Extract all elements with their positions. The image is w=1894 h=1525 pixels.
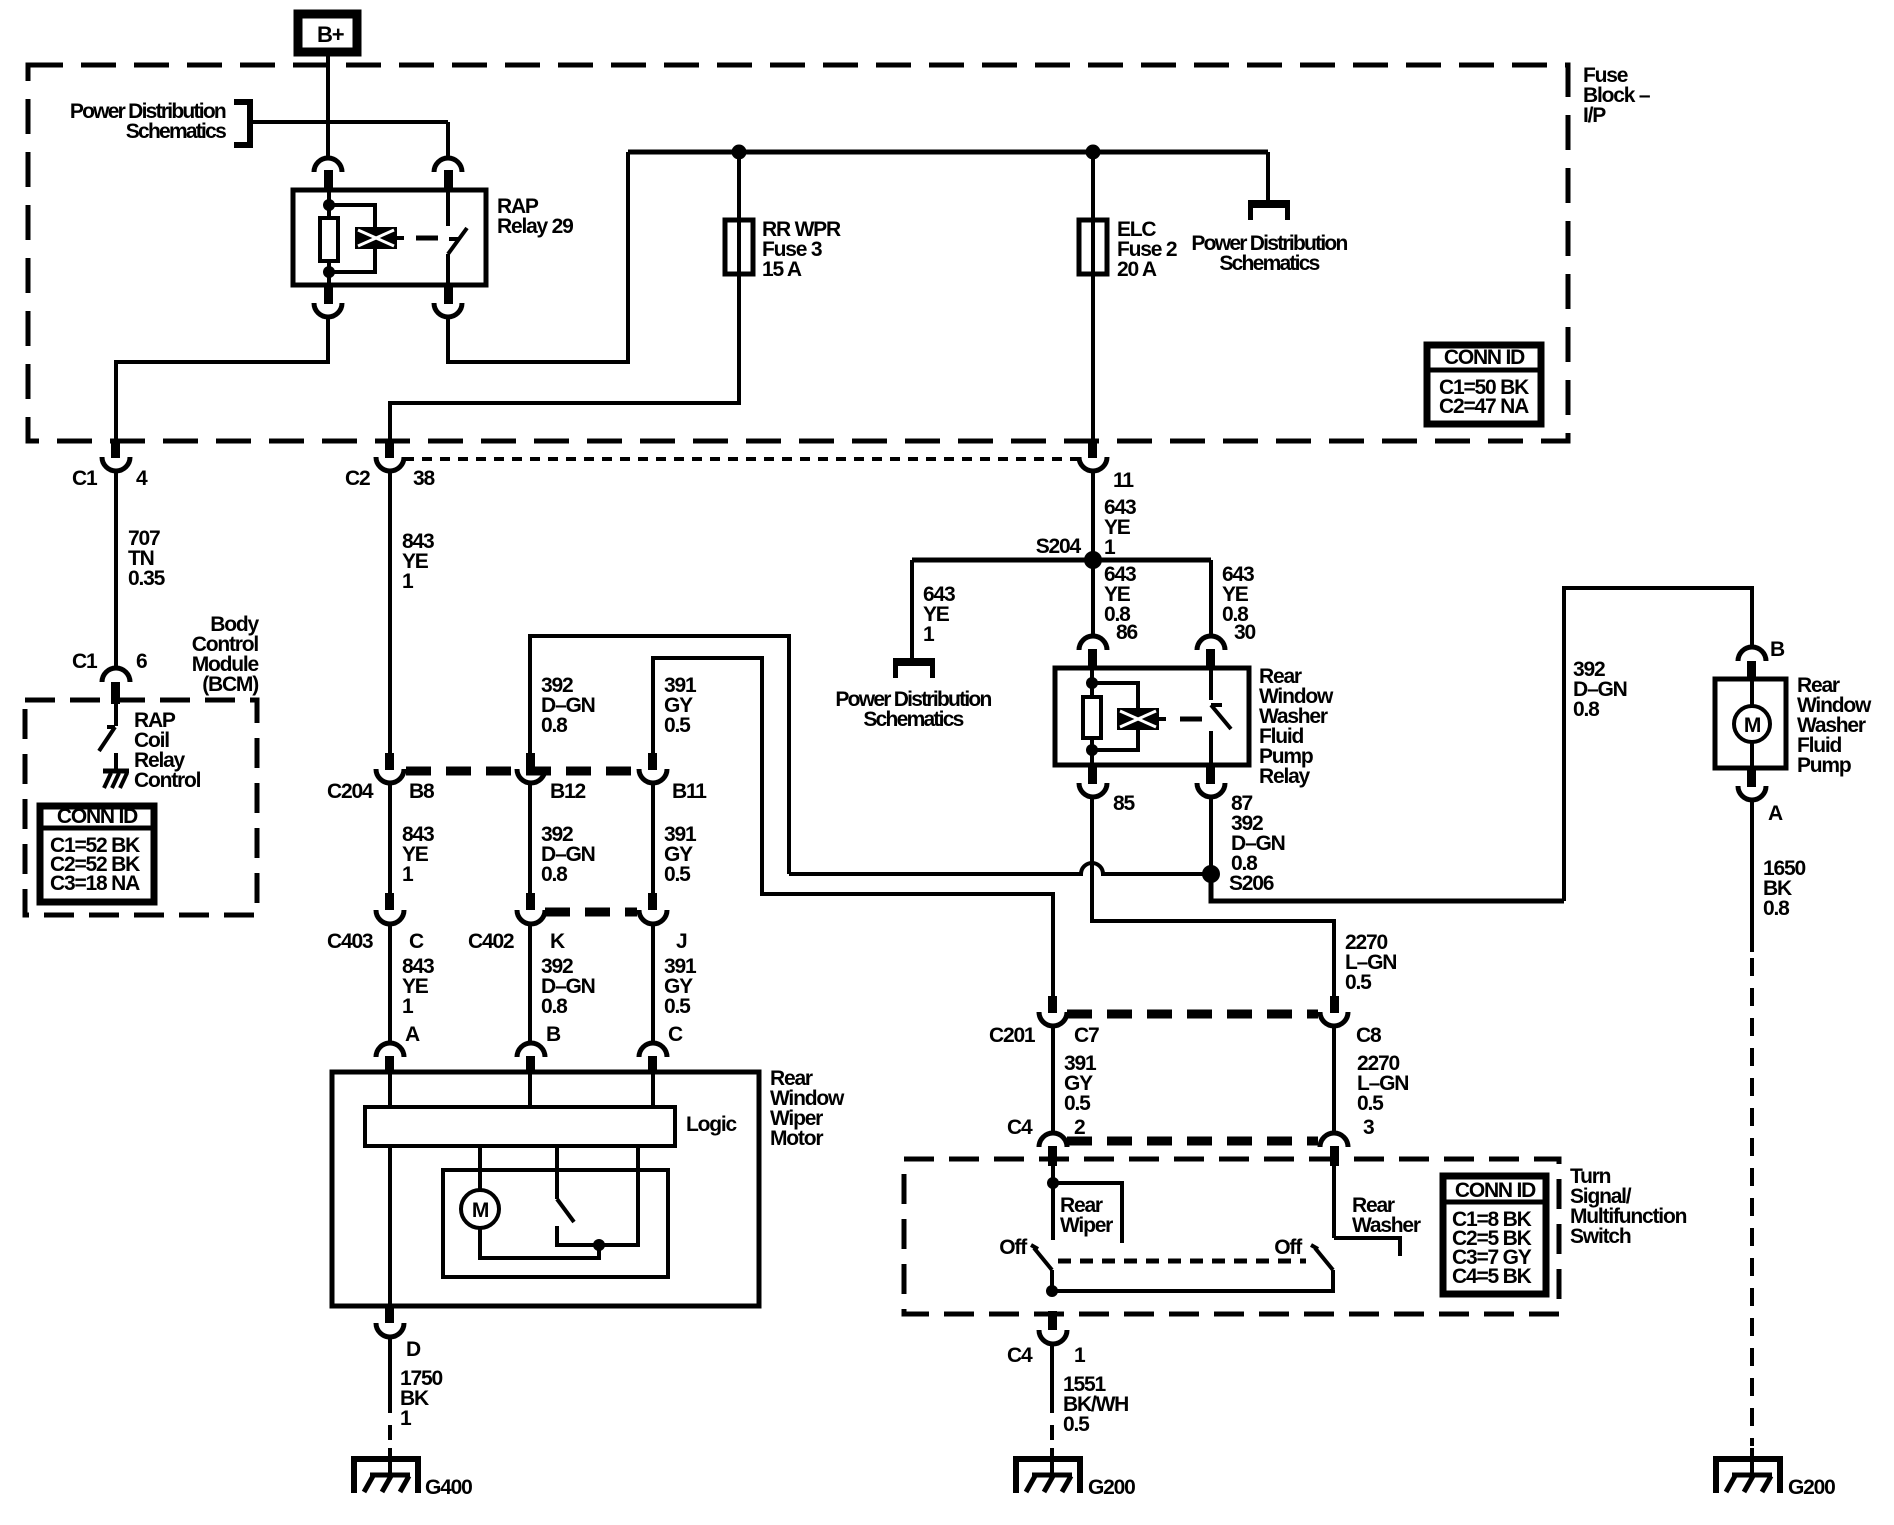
svg-text:Schematics: Schematics: [126, 120, 226, 143]
wire RAP switch out to top bus: [448, 152, 628, 362]
label Fuse Block - I/P: [1583, 64, 1651, 127]
svg-text:S204: S204: [1036, 535, 1082, 558]
svg-text:B: B: [1770, 638, 1785, 661]
connector arc 30: [1197, 636, 1225, 650]
RAP coil resistor: [327, 190, 331, 218]
svg-text:1: 1: [1074, 1344, 1086, 1367]
svg-text:1: 1: [402, 863, 414, 886]
svg-text:C2=47 NA: C2=47 NA: [1439, 395, 1529, 418]
connector C1 pin 6: [72, 650, 147, 704]
svg-text:86: 86: [1116, 621, 1137, 644]
svg-text:1: 1: [402, 570, 414, 593]
wire 843 YE 1 (C2 to C204): [390, 470, 434, 755]
wire bus to ELC fuse: [1091, 152, 1095, 220]
relay Rear Window Washer Fluid Pump Relay box: [1055, 668, 1249, 765]
washer relay switch: [1211, 668, 1231, 765]
svg-text:B12: B12: [550, 780, 585, 803]
svg-text:S206: S206: [1229, 872, 1274, 895]
svg-text:B8: B8: [409, 780, 435, 803]
wire 391 GY 0.5 (B11 upper): [653, 658, 1053, 999]
connector C403 C: [327, 893, 424, 953]
svg-text:0.5: 0.5: [1357, 1092, 1384, 1115]
svg-text:3: 3: [1363, 1116, 1374, 1139]
CONN ID box (BCM): [40, 805, 154, 902]
wire logic to motor M: [478, 1146, 482, 1190]
connector C1 pin 4: [72, 441, 148, 490]
connector C204 B12: [517, 753, 585, 803]
svg-text:Pump: Pump: [1797, 754, 1851, 777]
wire fuse3 to C2 pin 38: [390, 274, 739, 443]
washer relay coil branch: [1092, 683, 1138, 750]
connector A (washer pump): [1738, 768, 1783, 825]
wires A B C into logic: [388, 1072, 392, 1107]
connector arc RAP switch bottom: [444, 285, 453, 304]
svg-text:4: 4: [136, 467, 148, 490]
internal ground (BCM): [103, 753, 129, 788]
svg-text:G200: G200: [1088, 1476, 1135, 1499]
RAP coil relay control switch blade: [99, 704, 116, 751]
wire 1650 BK 0.8: [1752, 799, 1805, 1475]
wire bus to off-page bracket right: [1266, 152, 1270, 200]
motor M (washer pump): [1734, 679, 1770, 768]
svg-text:Washer: Washer: [1352, 1214, 1421, 1237]
svg-text:0.8: 0.8: [1573, 698, 1600, 721]
wire label 87 392 D-GN 0.8: [1231, 792, 1285, 875]
svg-text:Switch: Switch: [1570, 1225, 1631, 1248]
RAP coil branch wire: [329, 205, 375, 272]
wire 392 D-GN 0.8 (B12 upper): [530, 636, 789, 874]
wire fuse2 down to pin 11: [1091, 274, 1095, 445]
label Power Distribution Schematics (S204): [835, 688, 991, 731]
connector D (wiper motor out): [376, 1306, 421, 1361]
Rear Window Washer Fluid Pump box: [1715, 679, 1786, 768]
svg-text:A: A: [405, 1023, 420, 1046]
svg-text:C204: C204: [327, 780, 374, 803]
logic block: [365, 1107, 738, 1146]
svg-text:Off: Off: [999, 1236, 1028, 1259]
svg-text:D: D: [406, 1338, 421, 1361]
relay RAP Relay 29 box: [293, 190, 486, 285]
connector arc RAP coil top: [314, 158, 342, 172]
svg-text:C4: C4: [1007, 1344, 1033, 1367]
svg-text:CONN ID: CONN ID: [1444, 346, 1525, 369]
wire 392 D-GN 0.8 (K to B): [530, 924, 595, 1043]
svg-text:1: 1: [1104, 536, 1116, 559]
svg-text:20 A: 20 A: [1117, 258, 1157, 281]
CONN ID box (fuse block): [1427, 345, 1541, 424]
label Power Distribution Schematics (left): [70, 100, 226, 143]
svg-text:CONN ID: CONN ID: [1455, 1179, 1536, 1202]
svg-text:Relay 29: Relay 29: [497, 215, 573, 238]
svg-text:Control: Control: [134, 769, 201, 792]
wire 391 GY 0.5 (J to C): [653, 924, 697, 1043]
svg-text:C4=5 BK: C4=5 BK: [1452, 1265, 1532, 1288]
wire 391 GY 0.5 (C7 to C4-2): [1053, 1026, 1097, 1134]
wire common bus to washer blade: [1052, 1270, 1333, 1291]
wire C4-3 into switch / rear washer contact: [1334, 1162, 1421, 1256]
wire 843 YE 1 (B8 to C403): [390, 783, 434, 895]
wire 392 D-GN 0.8 (B12 to K): [530, 783, 595, 895]
fuse RR WPR Fuse 3 15A: [725, 218, 841, 281]
washer relay coil resistor: [1083, 668, 1101, 765]
svg-text:C7: C7: [1074, 1024, 1099, 1047]
svg-text:0.5: 0.5: [1063, 1413, 1090, 1436]
Fuse Block I/P dashed box: [28, 65, 1568, 441]
svg-text:0.5: 0.5: [664, 714, 691, 737]
svg-text:Schematics: Schematics: [1219, 252, 1319, 275]
wire 643 YE 0.8 30 (S204 to relay switch): [1211, 560, 1255, 644]
connector arc RAP switch top: [434, 158, 462, 172]
Turn Signal Multifunction Switch dashed box: [904, 1159, 1559, 1314]
wire bus to RR WPR fuse: [737, 152, 741, 220]
inner mechanism box: [443, 1170, 668, 1277]
svg-text:B: B: [546, 1023, 561, 1046]
connector B (wiper motor): [517, 1023, 561, 1074]
connector C204 B11: [639, 753, 707, 803]
washer relay dashed actuator link: [1180, 717, 1202, 722]
label Power Distribution Schematics (right): [1191, 232, 1347, 275]
wire 1551 BK/WH 0.5: [1052, 1343, 1128, 1475]
svg-text:Relay: Relay: [1259, 765, 1311, 788]
dashed connector line C201: [1067, 1010, 1318, 1019]
wire down to relay switch pin: [446, 122, 450, 160]
svg-text:85: 85: [1113, 792, 1135, 815]
switch linkage dashed: [1058, 1259, 1306, 1264]
wire 85 to C8 (2270 L-GN 0.5): [1092, 796, 1396, 999]
wire logic to D output: [388, 1146, 392, 1306]
wire RAP coil out to C1 pin 4: [116, 315, 328, 443]
svg-text:C: C: [409, 930, 424, 953]
ground G400: [354, 1459, 472, 1499]
ground G200 (washer pump): [1716, 1459, 1835, 1499]
junction dot fuse2: [1086, 145, 1101, 160]
wire 391 GY 0.5 (B11 to J): [653, 783, 697, 895]
svg-text:G200: G200: [1788, 1476, 1835, 1499]
BCM dashed box: [25, 700, 257, 915]
wire S204 to off-page bracket: [910, 560, 914, 658]
svg-text:15 A: 15 A: [762, 258, 802, 281]
svg-text:M: M: [1744, 714, 1761, 737]
dashed connector line C204: [406, 767, 637, 776]
svg-text:0.5: 0.5: [1064, 1092, 1091, 1115]
node switch common: [1046, 1285, 1058, 1297]
svg-text:Logic: Logic: [686, 1113, 738, 1136]
dashed connector line C402: [545, 908, 637, 917]
wire C4-2 into switch: [1051, 1162, 1055, 1240]
connector C402 J: [639, 893, 687, 953]
svg-text:J: J: [676, 930, 687, 953]
svg-text:Schematics: Schematics: [863, 708, 963, 731]
svg-text:Wiper: Wiper: [1060, 1214, 1113, 1237]
svg-text:2: 2: [1074, 1116, 1085, 1139]
svg-text:1: 1: [923, 623, 935, 646]
connector C (wiper motor): [639, 1023, 683, 1074]
wire 643 YE 0.8 86 (S204 to relay): [1093, 560, 1137, 644]
svg-text:0.5: 0.5: [664, 995, 691, 1018]
connector C4 pin 1: [1007, 1311, 1086, 1367]
label Rear Window Washer Fluid Pump: [1797, 674, 1872, 777]
svg-text:M: M: [472, 1199, 489, 1222]
CONN ID box (turn signal switch): [1443, 1176, 1546, 1294]
wire 707 TN 0.35: [116, 470, 166, 668]
wire 643 YE 1 (11 to S204): [1093, 470, 1136, 560]
label Turn Signal/Multifunction Switch: [1570, 1165, 1687, 1248]
svg-text:A: A: [1768, 802, 1783, 825]
fuse ELC Fuse 2 20A: [1079, 218, 1177, 281]
svg-text:38: 38: [413, 467, 435, 490]
connector arc 86: [1079, 636, 1107, 650]
svg-text:0.8: 0.8: [541, 995, 568, 1018]
svg-text:C201: C201: [989, 1024, 1036, 1047]
wire riser up and over to pump B: [1564, 588, 1752, 901]
svg-text:0.5: 0.5: [664, 863, 691, 886]
connector C204 B8: [327, 753, 435, 803]
junction dot fuse3: [732, 145, 747, 160]
motor M (wiper): [461, 1190, 499, 1228]
dashed connector line C2 to 11: [404, 457, 1077, 461]
svg-text:K: K: [550, 930, 565, 953]
ground G200 (switch): [1016, 1459, 1135, 1499]
label Rear Window Wiper Motor: [770, 1067, 845, 1150]
wire label 643 YE 1 (S204 left): [923, 583, 955, 646]
connector C201 C8: [1320, 996, 1382, 1047]
svg-text:0.35: 0.35: [128, 567, 166, 590]
wire B+ down to relay: [326, 55, 330, 160]
svg-text:Motor: Motor: [770, 1127, 823, 1150]
connector arc 87: [1206, 765, 1215, 784]
off-page bracket left: [234, 102, 250, 145]
svg-text:Off: Off: [1274, 1236, 1303, 1259]
svg-text:11: 11: [1113, 469, 1134, 492]
top bus wire: [628, 150, 1268, 155]
splice S206: [1202, 865, 1274, 895]
wire 1750 BK 1: [390, 1336, 442, 1475]
wire S206 left to B12 branch (hop over 85 wire): [789, 863, 1203, 874]
wire 2270 L-GN 0.5 (C8 to C4-3): [1334, 1026, 1408, 1134]
svg-text:C8: C8: [1356, 1024, 1382, 1047]
svg-text:30: 30: [1234, 621, 1255, 644]
svg-text:I/P: I/P: [1583, 104, 1606, 127]
connector pin 11: [1079, 441, 1134, 492]
Rear Window Wiper Motor box: [332, 1072, 759, 1306]
svg-text:0.8: 0.8: [541, 863, 568, 886]
svg-text:C403: C403: [327, 930, 373, 953]
svg-text:0.5: 0.5: [1345, 971, 1372, 994]
RAP relay dashed actuator link: [416, 236, 438, 241]
svg-text:B+: B+: [317, 22, 344, 47]
connector pin 3: [1320, 1116, 1374, 1166]
wire 87 down to S206: [1209, 796, 1213, 874]
svg-text:C4: C4: [1007, 1116, 1033, 1139]
connector A (wiper motor): [376, 1023, 420, 1074]
svg-text:0.8: 0.8: [541, 714, 568, 737]
connector C4 pin 2: [1007, 1116, 1085, 1166]
wire bracket to relay right pin: [253, 120, 448, 124]
node rear wiper contact: [1047, 1177, 1122, 1243]
dashed connector line C4-3: [1067, 1137, 1318, 1146]
splice S204: [912, 535, 1211, 569]
washer relay coil symbol (box with X): [1117, 708, 1166, 730]
wiper park switch: [480, 1146, 638, 1258]
svg-text:(BCM): (BCM): [202, 673, 258, 696]
connector arc 85: [1088, 765, 1097, 784]
svg-text:G400: G400: [425, 1476, 472, 1499]
connector B (washer pump): [1738, 638, 1785, 681]
label RAP Coil Relay Control: [134, 709, 201, 792]
connector C201 C7: [989, 996, 1099, 1047]
svg-text:C402: C402: [468, 930, 514, 953]
svg-text:C1: C1: [72, 467, 98, 490]
rear wiper switch blade (Off): [999, 1236, 1052, 1291]
rear washer switch blade (Off): [1274, 1236, 1333, 1270]
svg-text:C3=18 NA: C3=18 NA: [50, 872, 140, 895]
wire 843 YE 1 (C to A): [390, 924, 434, 1043]
B+ power terminal: [298, 14, 357, 52]
off-page bracket right (Power Distribution): [1248, 200, 1290, 220]
label Body Control Module (BCM): [192, 613, 260, 696]
connector arc RAP coil bottom: [324, 285, 333, 304]
off-page bracket (S204 Power Distribution): [893, 658, 935, 678]
connector C402 K: [468, 893, 565, 953]
svg-text:C: C: [668, 1023, 683, 1046]
svg-text:CONN ID: CONN ID: [57, 805, 138, 828]
svg-text:0.8: 0.8: [1763, 897, 1790, 920]
RAP coil symbol (box with X): [355, 227, 404, 249]
svg-text:C1: C1: [72, 650, 98, 673]
svg-text:1: 1: [402, 995, 414, 1018]
RAP relay switch: [448, 190, 467, 285]
label Rear Window Washer Fluid Pump Relay: [1259, 665, 1334, 788]
svg-text:B11: B11: [672, 780, 707, 803]
svg-text:C2: C2: [345, 467, 370, 490]
svg-text:1: 1: [400, 1407, 412, 1430]
wire label 392 D-GN 0.8 (pump feed): [1573, 658, 1627, 721]
wire S206 to washer pump riser: [1211, 874, 1564, 901]
connector C2 pin 38: [345, 441, 435, 490]
svg-text:6: 6: [136, 650, 147, 673]
